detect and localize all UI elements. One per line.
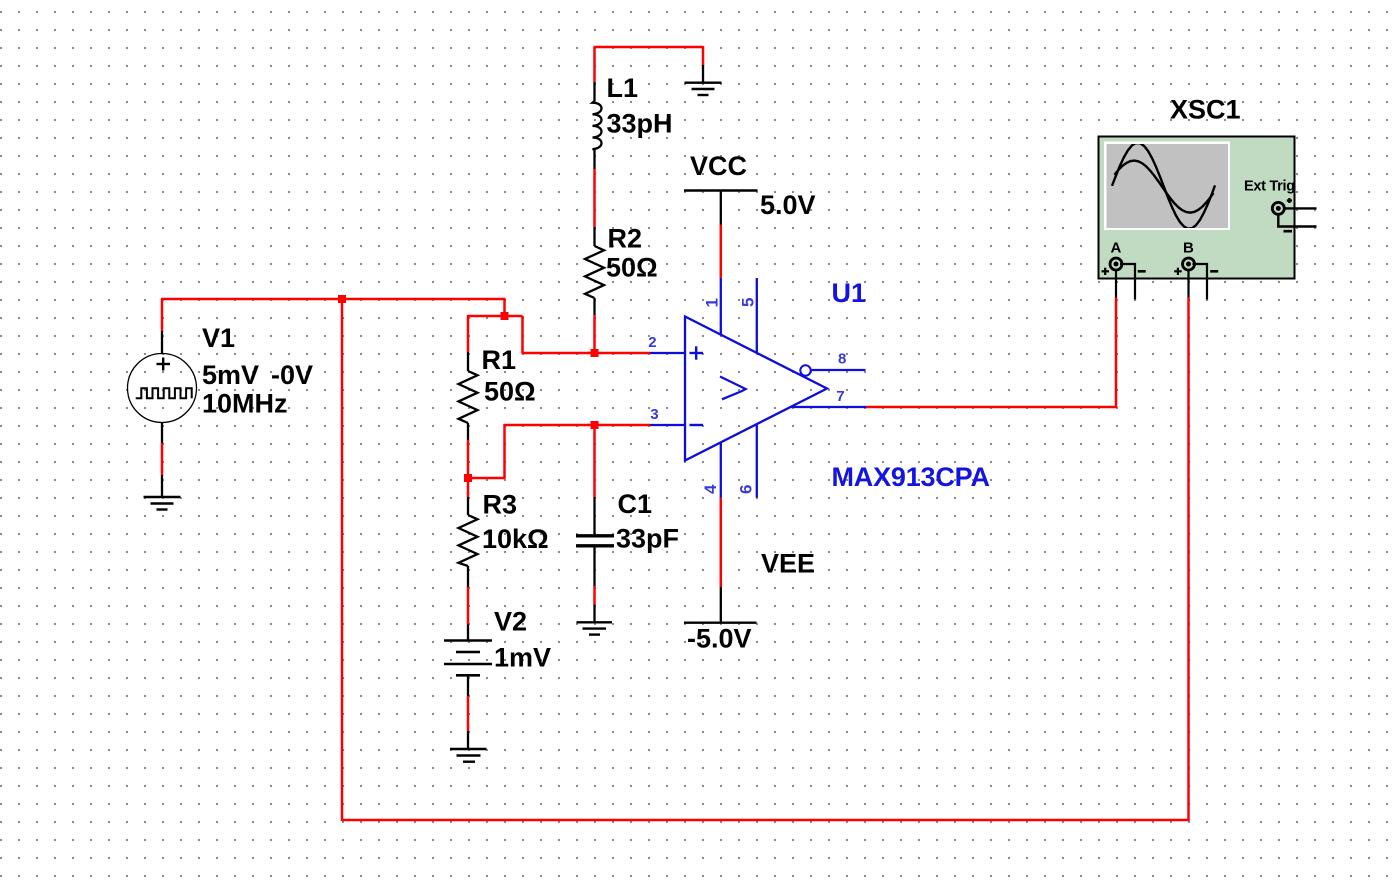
svg-text:Ext Trig: Ext Trig (1244, 179, 1295, 195)
svg-text:U1: U1 (832, 278, 867, 308)
wire: junction to R3 horizontal y=478 (468, 477, 506, 480)
svg-text:C1: C1 (618, 489, 653, 519)
op-amp pin 1 lead (720, 278, 722, 335)
wire: R2 top red (between L1 and R2) (593, 169, 596, 227)
op-amp U1 (comparator) (650, 278, 866, 498)
scope B plus mark (1174, 268, 1182, 275)
svg-text:2: 2 (648, 334, 656, 351)
svg-text:33pH: 33pH (607, 108, 673, 138)
resistor R3 (459, 497, 478, 587)
resistor R1 (459, 352, 478, 440)
wire: R1 top red segment (467, 315, 470, 352)
svg-text:5mV: 5mV (202, 360, 259, 390)
svg-text:7: 7 (836, 388, 844, 405)
capacitor C1 (576, 497, 614, 586)
svg-text:8: 8 (838, 350, 846, 367)
svg-text:V2: V2 (494, 607, 527, 637)
V1 source circle (128, 331, 197, 443)
svg-text:10MHz: 10MHz (202, 389, 288, 419)
wire: R3 top red (467, 477, 470, 497)
Ext Trig wires (1278, 208, 1316, 226)
svg-text:10kΩ: 10kΩ (482, 524, 549, 554)
oscilloscope screen (1107, 144, 1229, 228)
scope B stub wire (1193, 264, 1208, 300)
Ext Trig terminal (1272, 202, 1284, 214)
svg-text:4: 4 (701, 484, 720, 494)
op-amp pin 7 lead (791, 406, 867, 408)
inductor L1 (593, 82, 602, 169)
svg-text:VCC: VCC (690, 151, 747, 181)
op-amp triangle (685, 317, 827, 461)
oscilloscope sine waves (1112, 143, 1215, 229)
svg-text:XSC1: XSC1 (1170, 95, 1241, 125)
V1 ground (144, 475, 181, 510)
wire: pin3 row horizontal (505, 424, 651, 427)
junction at 468,478 (464, 474, 472, 482)
svg-text:MAX913CPA: MAX913CPA (832, 462, 990, 492)
wire: x=504.5 drop to junction (503, 299, 506, 316)
wire: left vertical x=342 up to top wire (341, 299, 344, 821)
svg-text:R3: R3 (483, 490, 518, 520)
wire: R2 bottom red (593, 315, 596, 354)
wire: pin4 to VEE red (720, 498, 723, 587)
svg-text:R1: R1 (482, 345, 517, 375)
scope A lead black (1115, 269, 1117, 298)
wire: C1 bottom red (593, 586, 596, 605)
wire: V2 bottom red (467, 696, 470, 731)
wire: bend down to pin2 row (521, 316, 524, 353)
battery V2 (444, 625, 492, 697)
svg-text:L1: L1 (607, 73, 639, 103)
wire: R3 bottom red (467, 587, 470, 625)
scope B lead black (1187, 269, 1189, 298)
wire: top horizontal to ground (594, 46, 704, 49)
scope A minus mark (1138, 270, 1146, 273)
wire: bend down from pin3 row (503, 424, 506, 478)
svg-text:3: 3 (650, 406, 658, 423)
C1 ground (577, 605, 613, 635)
svg-text:33pF: 33pF (616, 524, 679, 554)
wire: V1 to junction horizontal y=299 (161, 298, 506, 301)
op-amp pin 5 lead (756, 278, 758, 353)
svg-text:6: 6 (737, 485, 756, 494)
wire: R1 bottom red (467, 440, 470, 479)
svg-text:B: B (1183, 239, 1194, 256)
V2 ground (450, 731, 487, 762)
op-amp plus input symbol (690, 346, 704, 425)
svg-text:50Ω: 50Ω (606, 252, 658, 282)
wire: C1 top red (593, 424, 596, 497)
scope A terminal (1110, 258, 1122, 270)
junction at 594.5,425 (591, 421, 599, 429)
wire: scope B vertical red (1187, 298, 1190, 822)
svg-text:VEE: VEE (761, 549, 815, 579)
op-amp pin 8 lead (811, 369, 866, 371)
wire: bottom horizontal y=820 (342, 819, 1190, 822)
oscilloscope screen white frame (1104, 142, 1230, 231)
op-amp pin 4 lead (720, 443, 722, 498)
wire: V1 bottom red (161, 443, 164, 475)
wire: drop to top ground (702, 46, 705, 66)
svg-text:-5.0V: -5.0V (687, 624, 752, 654)
svg-text:1: 1 (703, 298, 722, 307)
svg-text:R2: R2 (608, 224, 643, 254)
svg-text:-0V: -0V (271, 360, 313, 390)
svg-text:1mV: 1mV (494, 643, 551, 673)
Ext Trig plus mark (1287, 198, 1292, 203)
Ext Trig minus mark (1284, 230, 1293, 233)
svg-text:5.0V: 5.0V (760, 190, 816, 220)
VCC power symbol (684, 191, 758, 225)
wire: pin2 row horizontal (522, 352, 651, 355)
svg-text:A: A (1111, 239, 1122, 256)
op-amp pin 6 lead (756, 425, 758, 498)
wire: V1 top vertical (161, 299, 164, 331)
op-amp output bubble (800, 365, 810, 375)
oscilloscope XSC1 body (1099, 137, 1295, 279)
scope B minus mark (1210, 270, 1218, 273)
junction at 594.5,353 (591, 349, 599, 357)
wire: op-amp output to scope A (866, 406, 1117, 409)
V1 clock waveform (136, 388, 192, 398)
svg-text:V1: V1 (202, 323, 235, 353)
wire: L1 top red (593, 47, 596, 82)
junction at 342,299 (338, 295, 346, 303)
op-amp internal comparator mark (720, 377, 746, 400)
wire: VCC stem red (720, 225, 723, 279)
op-amp pin 2 lead (650, 352, 685, 354)
top ground (near L1) (685, 65, 722, 95)
scope A stub wire (1120, 264, 1135, 300)
op-amp minus input symbol (690, 424, 704, 426)
junction at 504.5,316 (501, 312, 509, 320)
svg-text:5: 5 (739, 298, 758, 307)
VEE power symbol (684, 587, 757, 623)
scope B terminal (1183, 258, 1195, 270)
wire: horizontal y=316 R1-top to bend (468, 315, 523, 318)
resistor R2 (585, 227, 604, 315)
op-amp pin 3 lead (650, 424, 685, 426)
svg-text:50Ω: 50Ω (484, 377, 536, 407)
wire: scope A vertical red (1115, 298, 1118, 409)
V1 plus sign (157, 358, 171, 371)
scope A plus mark (1102, 268, 1110, 275)
